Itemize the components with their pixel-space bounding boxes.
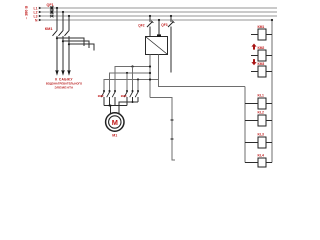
svg-text:KL1: KL1 — [258, 94, 265, 98]
node tick 2 on control wire — [171, 138, 174, 140]
breaker QF3 — [161, 16, 174, 73]
breaker QF2 — [138, 16, 153, 37]
node junction on L1 — [56, 7, 58, 9]
node junction C-branch — [68, 43, 70, 45]
arrow to heater phase B — [61, 70, 64, 76]
node heater destination text — [46, 77, 82, 89]
svg-text:КМ2: КМ2 — [258, 46, 265, 50]
node junction L3 tap 2 — [170, 15, 172, 17]
wire bus L3 — [42, 15, 278, 17]
coil KM1 — [251, 25, 272, 40]
contactor KM1 — [45, 26, 70, 70]
wire box output 1 — [149, 55, 151, 98]
wire drop to KM3 pole1 — [126, 72, 128, 74]
node junction A-branch — [56, 37, 58, 39]
wire to relay column — [150, 98, 175, 161]
svg-text:QF2: QF2 — [138, 24, 144, 28]
wire bus L2 — [42, 11, 278, 13]
relay KL1 — [245, 94, 272, 110]
svg-text:КМ1: КМ1 — [258, 25, 265, 29]
svg-text:KL4: KL4 — [258, 154, 265, 158]
wire drop phase C — [68, 16, 70, 30]
wire drop to KM3 pole3 — [137, 78, 139, 80]
svg-text:M: M — [112, 118, 118, 127]
arrow to heater phase C — [67, 70, 70, 76]
node junction L3 tap 1 — [149, 15, 151, 17]
svg-text:М1: М1 — [112, 134, 117, 138]
wire bus N — [42, 19, 273, 21]
svg-text:KL2: KL2 — [258, 111, 265, 115]
relay KL3 — [245, 133, 272, 149]
wire drop phase B — [62, 12, 64, 30]
node N label — [35, 18, 42, 22]
node junction on L3 — [68, 15, 70, 17]
wire branch A with stub — [57, 38, 84, 46]
svg-text:КМ1: КМ1 — [45, 26, 54, 31]
node L2 label — [34, 10, 42, 14]
node junction on L2 — [62, 11, 64, 13]
relay KL4 — [245, 154, 272, 168]
node junction h1 end — [149, 72, 151, 74]
wire merge link upper — [119, 102, 138, 115]
node junction h2 cross — [149, 78, 151, 80]
node junction merge lower — [109, 105, 111, 107]
contactor KM3 contacts — [124, 90, 139, 106]
wire N drop right — [271, 20, 273, 163]
wire branch C with stub — [69, 44, 94, 50]
wire feeder h1 — [110, 73, 151, 91]
node L3 label — [34, 14, 42, 18]
wire KL left bus — [244, 87, 246, 163]
motor M1 — [106, 113, 124, 138]
wire merge link lower — [104, 105, 127, 107]
svg-text:К САБЖУ: К САБЖУ — [55, 77, 73, 81]
node junction merge upper — [132, 101, 134, 103]
wire box output 2 — [159, 55, 246, 87]
node L1 label — [34, 6, 42, 10]
breaker QF1 — [47, 3, 54, 17]
arrow to heater phase A — [55, 70, 58, 76]
relay KL2 — [245, 111, 272, 127]
node junction B-branch — [62, 40, 64, 42]
wire feeder h0 — [115, 67, 150, 92]
wire feeder h2 — [104, 80, 159, 92]
wire motor drop — [110, 106, 112, 115]
svg-text:~ 380 В: ~ 380 В — [25, 6, 29, 20]
svg-text:KL3: KL3 — [258, 133, 265, 137]
power supply U1 box — [146, 37, 168, 55]
svg-text:QF3: QF3 — [161, 23, 167, 27]
wire N tap to box — [158, 19, 160, 21]
svg-text:КМ3: КМ3 — [258, 62, 265, 66]
node junction h0 end — [149, 65, 151, 67]
node tick 1 on control wire — [171, 119, 174, 121]
svg-text:КМ3: КМ3 — [121, 94, 127, 98]
wire drop to KM3 pole2 — [131, 65, 133, 67]
coil KM3 — [251, 59, 272, 77]
wire bus L1 — [42, 7, 278, 9]
wire branch B with stub — [63, 41, 89, 48]
svg-text:ЭЛЕМЕНТА: ЭЛЕМЕНТА — [54, 85, 74, 89]
wire drop phase A — [56, 8, 58, 30]
svg-text:КМ2: КМ2 — [98, 94, 104, 98]
contactor KM2 contacts — [101, 90, 116, 106]
coil KM2 — [251, 44, 272, 62]
